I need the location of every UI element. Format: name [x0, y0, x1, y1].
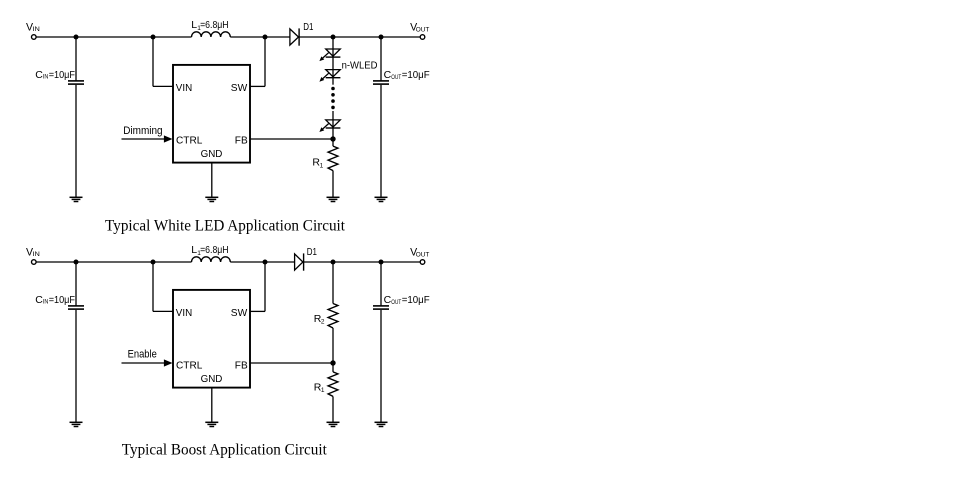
svg-text:D1: D1: [303, 22, 314, 33]
svg-text:Typical White LED Application: Typical White LED Application Circuit: [105, 217, 346, 234]
svg-text:n-WLED: n-WLED: [342, 61, 378, 72]
svg-text:D1: D1: [307, 247, 318, 258]
svg-text:SW: SW: [231, 82, 247, 94]
svg-text:=6.8μH: =6.8μH: [200, 244, 229, 256]
svg-text:=10μF: =10μF: [49, 294, 75, 306]
svg-text:GND: GND: [201, 148, 223, 160]
svg-text:GND: GND: [201, 373, 223, 385]
svg-text:=6.8μH: =6.8μH: [200, 19, 229, 31]
svg-text:1: 1: [320, 162, 324, 169]
svg-text:=10μF: =10μF: [402, 294, 430, 306]
svg-text:Enable: Enable: [128, 349, 157, 361]
svg-text:CTRL: CTRL: [176, 360, 203, 372]
svg-text:=10μF: =10μF: [49, 69, 75, 81]
svg-text:OUT: OUT: [391, 299, 401, 306]
svg-text:2: 2: [321, 319, 325, 326]
svg-text:OUT: OUT: [391, 74, 401, 81]
svg-text:Dimming: Dimming: [123, 125, 162, 137]
svg-text:CTRL: CTRL: [176, 135, 203, 147]
svg-text:VIN: VIN: [176, 82, 192, 94]
svg-text:VIN: VIN: [176, 307, 192, 319]
svg-text:SW: SW: [231, 307, 247, 319]
svg-text:Typical Boost Application Circ: Typical Boost Application Circuit: [122, 442, 328, 459]
svg-text:OUT: OUT: [416, 252, 430, 259]
svg-text:IN: IN: [32, 26, 40, 33]
svg-text:FB: FB: [235, 360, 248, 372]
svg-text:=10μF: =10μF: [402, 69, 430, 81]
svg-text:IN: IN: [32, 251, 40, 258]
svg-text:OUT: OUT: [416, 27, 430, 34]
svg-text:FB: FB: [235, 135, 248, 147]
svg-text:1: 1: [321, 387, 325, 394]
